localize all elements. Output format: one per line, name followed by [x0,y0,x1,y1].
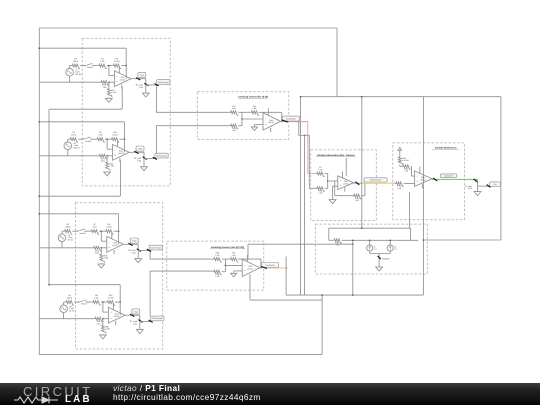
svg-text:1 MΩ: 1 MΩ [111,91,116,94]
svg-text:+: + [265,123,267,126]
svg-text:−: − [416,175,418,178]
svg-text:−: − [114,149,116,152]
svg-text:3.3 kΩ: 3.3 kΩ [106,225,112,228]
svg-text:LM741: LM741 [118,152,124,155]
svg-text:Clip2: Clip2 [138,147,142,150]
svg-text:2 kΩ: 2 kΩ [94,296,99,299]
svg-text:1.21 kΩ: 1.21 kΩ [402,159,409,162]
svg-text:+: + [110,317,112,320]
svg-text:1 kΩ: 1 kΩ [137,159,142,162]
svg-text:1 kΩ: 1 kΩ [232,129,237,132]
svg-text:2 kΩ: 2 kΩ [97,322,102,325]
svg-text:1 kΩ: 1 kΩ [397,187,402,190]
svg-text:400 Ω: 400 Ω [67,296,73,299]
svg-text:OutPreampA: OutPreampA [158,81,170,84]
svg-text:300 mV: 300 mV [75,73,82,76]
svg-text:1 kΩ: 1 kΩ [215,275,220,278]
svg-text:1 MΩ: 1 MΩ [109,165,114,168]
svg-text:LM741: LM741 [420,178,426,181]
svg-text:30 mV: 30 mV [69,309,75,312]
svg-text:1 kΩ: 1 kΩ [355,199,360,202]
svg-text:1 kΩ: 1 kΩ [468,187,473,190]
svg-text:summing inverse Mix (A+B): summing inverse Mix (A+B) [238,96,268,99]
svg-text:Variable Mix/Inverse: Variable Mix/Inverse [435,147,458,150]
svg-text:400 Ω: 400 Ω [73,60,79,63]
svg-text:Reset1: Reset1 [87,66,93,69]
svg-text:400 Ω: 400 Ω [65,225,71,228]
svg-text:3.3 kΩ: 3.3 kΩ [108,296,114,299]
svg-text:+: + [244,270,246,273]
svg-text:SumOutCD: SumOutCD [265,264,275,267]
svg-text:SumOutAB: SumOutAB [286,117,296,120]
svg-text:1 kΩ: 1 kΩ [318,192,323,195]
svg-text:400 Ω: 400 Ω [71,133,77,136]
svg-text:2 kΩ: 2 kΩ [93,225,98,228]
svg-text:+: + [416,180,418,183]
svg-text:OutPreampB: OutPreampB [156,154,168,157]
svg-text:3.3 kΩ: 3.3 kΩ [114,60,120,63]
svg-text:OutMaster: OutMaster [444,175,453,178]
svg-text:1 kΩ: 1 kΩ [318,168,323,171]
svg-text:Reset2: Reset2 [85,140,91,143]
svg-text:2 kΩ: 2 kΩ [99,133,104,136]
svg-text:1 kΩ: 1 kΩ [215,254,220,257]
svg-text:1 kΩ: 1 kΩ [404,170,409,173]
svg-text:2 kΩ: 2 kΩ [95,252,100,255]
svg-text:LM741: LM741 [268,121,274,124]
svg-text:30 mV: 30 mV [68,238,74,241]
svg-text:+: + [116,80,118,83]
svg-text:Out: Out [494,183,498,186]
svg-text:LM741: LM741 [343,182,349,185]
svg-text:Clip3: Clip3 [132,239,136,242]
svg-text:+: + [114,154,116,157]
svg-text:+: + [109,246,111,249]
svg-text:1 A: 1 A [374,248,377,251]
svg-text:OutPreampC: OutPreampC [150,246,162,249]
svg-text:POWER: POWER [382,258,390,261]
svg-text:2 kΩ: 2 kΩ [100,60,105,63]
svg-text:1 kΩ: 1 kΩ [131,251,136,254]
svg-text:1 kΩ: 1 kΩ [232,254,237,257]
svg-text:−: − [116,75,118,78]
svg-text:Reset3: Reset3 [80,232,86,235]
svg-text:1 kΩ: 1 kΩ [133,322,138,325]
svg-text:300 mV: 300 mV [73,146,80,149]
svg-text:+: + [340,184,342,187]
svg-text:LM741: LM741 [112,244,118,247]
svg-text:2 kΩ: 2 kΩ [101,160,106,163]
svg-text:−: − [244,264,246,267]
svg-text:1 MΩ: 1 MΩ [104,257,109,260]
svg-text:1 MΩ: 1 MΩ [105,328,110,331]
svg-text:Clip4: Clip4 [134,310,138,313]
svg-text:LM741: LM741 [120,78,126,81]
svg-text:Clip1: Clip1 [140,74,144,77]
svg-text:−: − [340,180,342,183]
svg-text:2 kΩ: 2 kΩ [103,86,108,89]
svg-text:1 kΩ: 1 kΩ [232,107,237,110]
svg-text:1 kΩ: 1 kΩ [139,86,144,89]
svg-text:LM741: LM741 [248,268,254,271]
svg-text:−: − [110,312,112,315]
svg-text:OutPreampD: OutPreampD [152,317,164,320]
svg-text:3.3 kΩ: 3.3 kΩ [112,133,118,136]
svg-text:Variable Attenuation (Mix: Vol: Variable Attenuation (Mix: Volume) [317,154,355,157]
svg-text:−: − [109,241,111,244]
svg-text:Reset4: Reset4 [81,303,87,306]
svg-text:1 kΩ: 1 kΩ [252,107,257,110]
svg-text:1 A: 1 A [394,248,397,251]
svg-text:LM741: LM741 [114,315,120,318]
svg-text:OutMixVolume: OutMixVolume [369,179,381,182]
svg-text:−: − [265,118,267,121]
svg-text:summing inverse (Jan A(C+D)): summing inverse (Jan A(C+D)) [211,246,245,249]
